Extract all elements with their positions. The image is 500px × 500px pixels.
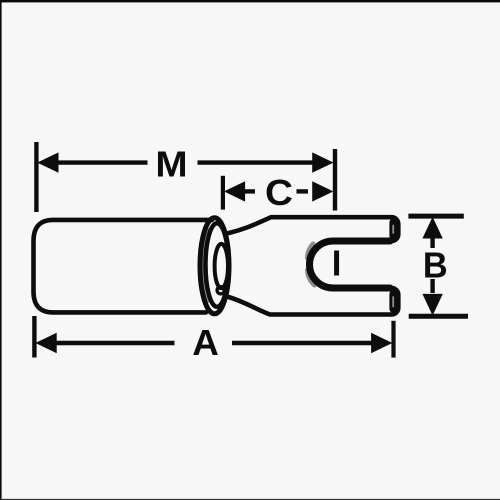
A left arrowhead	[37, 334, 57, 353]
ring gray crescent shading	[202, 230, 207, 301]
A right arrowhead	[372, 334, 392, 353]
top prong tip cap highlight	[392, 226, 394, 234]
M left arrowhead	[38, 153, 58, 172]
bottom prong tip cap band	[389, 294, 398, 309]
B top extension line	[408, 214, 463, 219]
M dimension line left segment	[52, 160, 148, 164]
B up arrowhead	[423, 218, 442, 238]
insulation barrel	[34, 220, 213, 313]
ring outer ellipse	[200, 218, 229, 314]
B arrow upper shaft	[430, 236, 434, 248]
ring middle ellipse	[206, 223, 229, 307]
left border bar	[0, 0, 2, 500]
svg-text:C: C	[265, 172, 293, 213]
C dimension line right segment	[297, 189, 309, 193]
bottom prong tip cap highlight	[392, 297, 394, 307]
C left extension line	[221, 176, 225, 210]
A dimension line right segment	[232, 341, 373, 345]
M right arrowhead	[313, 153, 333, 172]
A dimension line left segment	[53, 341, 175, 345]
svg-text:M: M	[155, 144, 187, 185]
B down arrowhead	[423, 294, 442, 314]
C left arrowhead	[225, 182, 245, 201]
wire hole ellipse	[215, 244, 228, 288]
M left extension line	[34, 142, 38, 212]
svg-text:A: A	[192, 322, 219, 363]
A right extension line	[391, 321, 395, 358]
M dimension line right segment	[198, 160, 314, 164]
slot U inner outline	[310, 241, 391, 288]
slot U-curve shading upper	[308, 244, 314, 258]
svg-text:I: I	[332, 243, 342, 284]
B arrow lower shaft	[430, 279, 434, 293]
slot U-curve shading lower	[308, 270, 315, 285]
C dimension line left segment	[240, 189, 255, 193]
bottom border line	[0, 499, 500, 500]
top border bar	[0, 0, 500, 2]
M and C shared right extension line	[333, 149, 337, 211]
crimp dot	[217, 287, 224, 294]
A left extension line	[32, 316, 36, 358]
top prong tip cap band	[389, 223, 398, 237]
svg-text:B: B	[423, 245, 448, 286]
B bottom extension line	[409, 314, 468, 319]
tongue outer outline (top edge, transitions, bottom edge)	[227, 217, 398, 314]
C right arrowhead	[313, 182, 333, 201]
